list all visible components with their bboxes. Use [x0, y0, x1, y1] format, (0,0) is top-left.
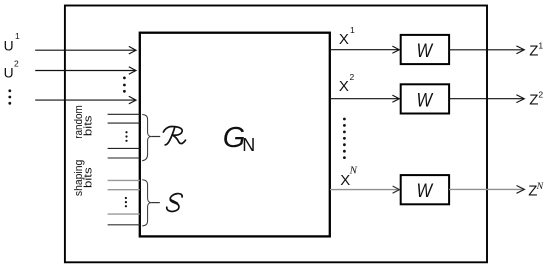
script R label: [163, 126, 185, 144]
outer channel box: [65, 6, 487, 263]
wire W2 to Z2: [449, 95, 524, 103]
wire arrow U1 into box: [35, 46, 136, 54]
svg-text:X: X: [339, 31, 349, 48]
svg-text:U: U: [4, 66, 14, 81]
svg-text:2: 2: [350, 72, 355, 82]
svg-text:W: W: [417, 89, 434, 111]
inner encoder box G_N: [140, 33, 330, 237]
script S label: [167, 194, 182, 212]
wire arrow U3 into box: [35, 96, 136, 104]
wire box to WN (gray): [330, 189, 399, 191]
svg-text:1: 1: [350, 25, 355, 35]
wire arrow U2 into box: [35, 67, 136, 75]
dots in shaping stubs: [125, 197, 127, 207]
channel box W2: [401, 84, 449, 113]
svg-text:W: W: [417, 180, 434, 202]
svg-text:W: W: [417, 40, 434, 62]
shaping bit stub wires: [108, 180, 140, 214]
svg-text:1: 1: [538, 40, 543, 50]
svg-text:bits: bits: [83, 167, 95, 188]
brace for R: [142, 115, 151, 161]
wire W1 to Z1: [449, 46, 524, 54]
brace for S: [142, 180, 151, 226]
svg-text:bits: bits: [83, 115, 95, 136]
svg-text:1: 1: [15, 31, 20, 41]
dots in random stubs: [125, 131, 127, 142]
svg-text:N: N: [242, 135, 255, 155]
vertical dots under U2: [8, 89, 11, 104]
wire box to W2: [330, 95, 399, 102]
svg-text:N: N: [349, 164, 358, 176]
svg-text:U: U: [4, 38, 14, 53]
svg-text:Z: Z: [529, 43, 538, 60]
svg-text:2: 2: [538, 89, 543, 99]
wire box to W1: [330, 46, 399, 53]
random bit stub wires: [108, 114, 140, 158]
connector to S: [151, 202, 160, 204]
svg-text:N: N: [536, 181, 544, 192]
channel box W1: [401, 35, 449, 64]
svg-text:2: 2: [14, 59, 19, 69]
wire WN to ZN (gray): [449, 188, 523, 190]
connector to R: [151, 136, 160, 138]
vertical dots left of box between arrows: [123, 77, 126, 93]
svg-text:X: X: [339, 78, 349, 95]
vertical dots column right: [343, 118, 346, 159]
svg-text:Z: Z: [529, 91, 538, 108]
channel box WN: [401, 175, 449, 204]
